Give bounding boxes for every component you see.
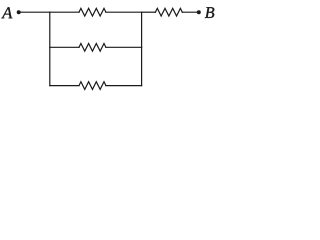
wire: resistor R4 to terminal B — [182, 11, 197, 13]
wire: resistor R2 to right bus — [106, 46, 142, 48]
wire: left bus to resistor R2 — [50, 46, 79, 48]
terminal B dot — [197, 10, 201, 14]
wire: resistor R3 to right bus — [106, 85, 142, 87]
terminal A dot — [17, 10, 21, 14]
wire: left vertical bus — [49, 12, 51, 85]
wire: left junction to resistor R1 — [50, 11, 79, 13]
resistor R1 (top parallel branch) — [79, 8, 106, 16]
terminal label A — [1, 7, 12, 18]
wire: right junction to resistor R4 — [142, 11, 156, 13]
wire: left bus to resistor R3 — [50, 85, 79, 87]
terminal label B — [205, 7, 214, 18]
wire: terminal A to left junction — [19, 11, 50, 13]
resistor R3 (bottom parallel branch) — [79, 82, 106, 90]
wire: resistor R1 to right junction — [106, 11, 142, 13]
wire: right vertical bus — [141, 12, 143, 85]
resistor R2 (middle parallel branch) — [79, 43, 106, 51]
resistor R4 (series) — [155, 8, 182, 16]
